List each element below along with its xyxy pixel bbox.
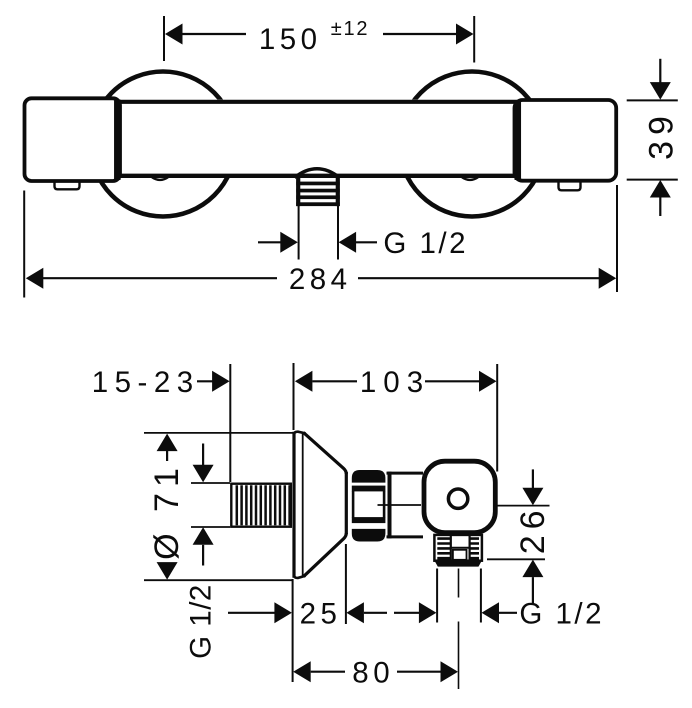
dimension 25 line left: [228, 612, 275, 614]
dimension 26 extension bottom: [487, 558, 545, 560]
G 1/2 arrow pointing right: [280, 232, 298, 253]
svg-text:G 1/2: G 1/2: [383, 227, 468, 260]
dimension 15-23 line: [197, 380, 214, 382]
svg-text:80: 80: [352, 656, 394, 689]
dimension 284 extension line right: [616, 185, 618, 292]
dimension 15-23 arrow right: [212, 371, 230, 392]
right cap divider: [515, 101, 522, 180]
G 1/2 bottom dim line left: [394, 612, 420, 614]
dimension 39 arrow up: [650, 180, 671, 198]
dimension 150 ±12 extension line left: [163, 16, 165, 61]
dimension 26 arrow down: [522, 488, 543, 506]
dimension 150 ±12 arrow left: [165, 24, 183, 45]
outlet extension line left: [436, 569, 438, 623]
outlet thread side rail left: [296, 177, 300, 207]
dimension 80 line left: [311, 671, 345, 673]
G 1/2 outlet extension line right: [337, 206, 339, 260]
G 1/2 bottom arrow right: [419, 602, 437, 623]
stub dim arrow up: [193, 527, 214, 545]
escutcheon cone base outer line: [292, 432, 295, 578]
wall thread stub hatching: [237, 485, 290, 525]
dimension 80 arrow right: [441, 661, 459, 682]
left cap divider: [114, 100, 121, 181]
G 1/2 bottom arrow left: [482, 602, 500, 623]
dimension 103 arrow left: [295, 371, 313, 392]
union nut white base: [352, 470, 386, 542]
stub thread extension line bottom: [191, 526, 230, 528]
bottom outlet inner square: [453, 550, 467, 560]
dimension 150 ±12 extension line right: [473, 16, 475, 63]
escutcheon cone base inner line: [302, 433, 304, 576]
svg-text:103: 103: [360, 366, 430, 399]
bottom outlet outline: [434, 535, 482, 561]
Ø71 arrow up: [157, 434, 178, 452]
G 1/2 outlet extension line left: [298, 206, 300, 260]
valve body squircle: [424, 461, 495, 532]
dimension 284 arrow left: [26, 268, 44, 289]
outlet extension line right: [480, 569, 482, 623]
union nut middle side left: [352, 491, 355, 518]
dimension 39 arrow down: [650, 82, 671, 100]
dimension 26 lower line: [532, 577, 534, 605]
escutcheon circle left: [91, 72, 236, 217]
outlet thread band 1: [296, 182, 339, 186]
Ø71 dimension line upper: [166, 451, 168, 461]
Ø71 arrow down: [157, 562, 178, 580]
union nut top cap: [352, 470, 386, 483]
stub thread extension line top: [191, 482, 230, 484]
valve screw circle: [448, 489, 467, 508]
union nut middle side right: [383, 491, 386, 518]
svg-text:26: 26: [514, 504, 552, 554]
collar top edge: [387, 472, 424, 475]
mixer bar body top edge: [119, 100, 517, 104]
escutcheon cone base top cap: [294, 432, 306, 434]
bottom outlet left thread stripes: [437, 539, 450, 559]
dimension 80 line right: [397, 671, 441, 673]
mixer bar body bottom edge: [119, 174, 517, 178]
union nut bottom cap: [352, 529, 386, 542]
dimension 26 upper line: [532, 469, 534, 488]
G 1/2 arrow pointing left: [339, 232, 357, 253]
outlet thread side rail right: [336, 177, 340, 207]
axis midline right of body: [495, 505, 550, 507]
Ø71 extension line top: [144, 432, 293, 434]
escutcheon cone top slope: [304, 433, 347, 474]
escutcheon cone base bottom cap: [294, 576, 306, 578]
dimension 284 extension line left: [23, 191, 25, 298]
dimension 25 line right: [364, 612, 387, 614]
stub dim lower line: [202, 545, 204, 566]
collar bottom edge: [387, 535, 424, 538]
svg-text:284: 284: [289, 263, 352, 296]
G 1/2 dimension line right: [356, 241, 377, 243]
extension line C (valve body top): [496, 364, 498, 472]
dimension 39 extension line top: [627, 99, 678, 101]
outlet thread band 3: [296, 195, 339, 199]
svg-text:150: 150: [259, 23, 322, 56]
G 1/2 dimension line left: [258, 241, 281, 243]
dimension 103 line right: [425, 380, 480, 382]
right cap clip tab: [559, 181, 581, 190]
dimension 150 ±12 line segments: [182, 33, 246, 35]
svg-text:15-23: 15-23: [92, 366, 200, 399]
dimension 80 arrow left: [293, 661, 311, 682]
bottom outlet middle column: [450, 535, 452, 561]
escutcheon cone bottom slope: [304, 533, 347, 577]
svg-text:G 1/2: G 1/2: [519, 598, 604, 631]
dimension 284 line left: [43, 277, 277, 279]
outlet thread band 4: [296, 202, 339, 206]
svg-text:25: 25: [300, 598, 342, 631]
union nut bump left: [152, 177, 168, 180]
wall extension line below cone: [292, 579, 294, 682]
outlet center line lower: [458, 622, 460, 690]
left end cap (handle): [25, 98, 121, 181]
svg-text:Ø 71: Ø 71: [148, 462, 186, 560]
stub dim arrow down: [193, 465, 214, 483]
bottom outlet right thread stripes: [470, 539, 479, 559]
G 1/2 bottom dim line right: [499, 612, 517, 614]
dimension 39 lower line: [659, 198, 661, 217]
escutcheon cone right edge: [345, 472, 348, 534]
dimension 284 line right: [358, 277, 599, 279]
outlet thread band 2: [296, 189, 339, 193]
dimension 25 arrow left: [346, 602, 364, 623]
svg-text:39: 39: [643, 110, 681, 160]
union nut ridge band 1: [352, 486, 386, 492]
extension line B (wall plane): [293, 363, 295, 430]
dimension 25 extension right: [345, 544, 347, 624]
dimension 26 arrow up: [522, 560, 543, 578]
dimension 103 line left: [312, 380, 357, 382]
dimension 39 upper line: [659, 59, 661, 84]
svg-text:±12: ±12: [331, 18, 370, 40]
collar left edge: [388, 472, 392, 539]
outlet center line upper: [458, 569, 460, 598]
bottom outlet black collar band: [434, 561, 482, 567]
dimension 284 arrow right: [599, 268, 617, 289]
dimension 150 ±12 arrow right: [456, 24, 474, 45]
escutcheon circle right: [400, 72, 545, 217]
dimension 39 extension line bottom: [627, 179, 678, 181]
axis midline through collar: [378, 504, 422, 506]
wall thread stub outline: [231, 484, 290, 527]
left cap clip tab: [55, 181, 80, 190]
extension line A (thread stub face): [229, 364, 231, 482]
right end cap (handle): [515, 100, 617, 181]
dimension 25 arrow right: [274, 602, 292, 623]
bottom outlet middle split: [451, 547, 470, 549]
outlet dome on bar: [295, 169, 340, 178]
mixer bar body white fill: [116, 100, 520, 178]
stub dim upper line: [202, 444, 204, 466]
union nut bump right: [462, 177, 478, 180]
union nut ridge band 2: [352, 517, 386, 523]
dimension 103 arrow right: [479, 371, 497, 392]
Ø71 extension line bottom: [144, 579, 293, 581]
svg-text:G 1/2: G 1/2: [184, 584, 217, 659]
